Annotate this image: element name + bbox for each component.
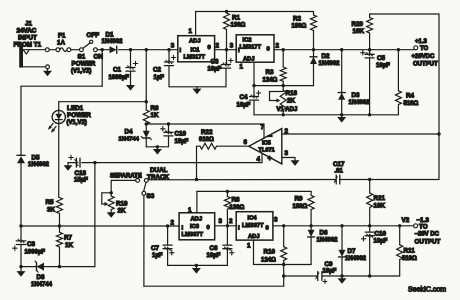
plus: [323, 280, 327, 284]
wire C7-C6 ground bus: [168, 264, 228, 266]
wire: [44, 266, 95, 268]
svg-text:D4: D4: [125, 128, 134, 135]
plus: [133, 61, 137, 65]
svg-text:R18: R18: [286, 90, 298, 97]
svg-text:0: 0: [207, 225, 210, 231]
node: [340, 274, 343, 277]
svg-text:TO: TO: [420, 46, 429, 52]
plus: [361, 237, 365, 241]
wire ref riser: [94, 163, 96, 267]
resistor R2 180ohm: [311, 12, 317, 50]
capacitor C4 10uF: [250, 86, 259, 115]
svg-text:C8: C8: [27, 241, 36, 248]
node: [167, 48, 170, 51]
svg-text:4: 4: [257, 156, 261, 163]
label pin7: [261, 124, 265, 131]
wire: [119, 49, 178, 51]
label S3: [147, 193, 155, 200]
plus: [161, 127, 165, 131]
terminal +output: [414, 46, 418, 50]
wire: [111, 180, 136, 192]
plus: [256, 91, 260, 95]
node: [93, 161, 96, 164]
wire ref neg bus: [95, 162, 262, 164]
svg-text:0: 0: [266, 226, 269, 232]
svg-text:3: 3: [219, 218, 223, 225]
plus: [361, 51, 365, 55]
label C2: [153, 67, 164, 81]
connector J1 24VAC input: [19, 45, 29, 68]
svg-text:TL071: TL071: [259, 147, 275, 153]
node: [195, 178, 198, 181]
svg-text:ADJ: ADJ: [248, 234, 260, 240]
node: [110, 191, 113, 194]
node: [437, 132, 440, 135]
svg-text:1µF: 1µF: [154, 75, 165, 81]
node: [58, 265, 61, 268]
svg-text:R5: R5: [46, 199, 55, 206]
svg-text:124Ω: 124Ω: [261, 257, 276, 263]
svg-text:IC4: IC4: [248, 215, 258, 221]
labels IC3: [171, 207, 223, 238]
label D2: [319, 53, 341, 67]
capacitor C1 1000uF: [126, 50, 135, 84]
svg-text:1N4744: 1N4744: [31, 282, 53, 288]
label R6: [151, 105, 160, 119]
plus: [229, 58, 233, 62]
regulator IC3 LM337T: [179, 213, 215, 240]
diode D4 1N4744 zener: [141, 124, 151, 147]
svg-text:OUTPUT: OUTPUT: [413, 62, 438, 68]
wire left rail: [20, 163, 22, 240]
svg-text:ADJ: ADJ: [191, 216, 203, 222]
ground: [291, 158, 300, 166]
svg-text:1N4744: 1N4744: [119, 136, 140, 142]
label C8: [25, 241, 46, 255]
resistor R4 510ohm: [395, 50, 401, 115]
svg-text:(V1,V2): (V1,V2): [67, 120, 87, 126]
svg-text:1N4002: 1N4002: [345, 256, 367, 262]
label C17: [333, 161, 345, 175]
capacitor C7 1uF: [163, 226, 172, 265]
svg-text:C1: C1: [113, 67, 122, 74]
svg-text:1N4002: 1N4002: [28, 162, 50, 168]
wire ADJ riser IC3: [196, 191, 198, 212]
resistor R3 124ohm: [280, 50, 286, 86]
svg-text:1: 1: [247, 242, 251, 249]
svg-text:910Ω: 910Ω: [199, 137, 214, 143]
svg-text:1N4002: 1N4002: [349, 100, 371, 106]
svg-text:−20V DC: −20V DC: [415, 232, 440, 238]
label C7: [151, 245, 163, 259]
svg-text:0: 0: [208, 45, 211, 51]
resistor R11 510ohm: [397, 226, 403, 276]
svg-text:2: 2: [276, 43, 280, 50]
capacitor C9 10uF: [316, 272, 322, 281]
svg-text:LM317T: LM317T: [184, 55, 206, 61]
node: [368, 178, 371, 181]
switch S3: [142, 183, 146, 196]
svg-text:R11: R11: [404, 248, 416, 255]
svg-text:1: 1: [189, 28, 193, 35]
svg-text:IC2: IC2: [243, 38, 252, 44]
svg-text:I: I: [180, 48, 182, 54]
capacitor C18 15uF: [68, 158, 95, 167]
node: [166, 224, 169, 227]
node: [156, 145, 159, 148]
wire IC2 out: [274, 49, 414, 51]
node: [312, 48, 315, 51]
wire IC1 out: [215, 49, 237, 51]
svg-text:6: 6: [244, 139, 248, 146]
svg-text:SeekIC.com: SeekIC.com: [408, 287, 446, 294]
label C3: [208, 59, 222, 73]
node: [226, 190, 229, 193]
LED LED1 POWER: [48, 102, 65, 133]
svg-text:180Ω: 180Ω: [293, 204, 308, 210]
switch S1 (open, OFF position): [80, 40, 93, 51]
wire: [58, 123, 60, 197]
label R11: [402, 248, 417, 263]
label D1: [102, 32, 124, 46]
node: [145, 48, 148, 51]
wire feedback: [148, 179, 336, 181]
svg-text:C17: C17: [333, 161, 345, 168]
wire sense: [284, 275, 318, 277]
svg-text:S1: S1: [78, 54, 86, 61]
svg-text:+1.3: +1.3: [415, 39, 428, 45]
wire jack sleeve: [23, 66, 46, 68]
svg-text:1A: 1A: [57, 40, 66, 47]
ground: [193, 87, 202, 94]
diode D7 1N4002: [339, 226, 346, 276]
svg-text:180Ω: 180Ω: [292, 24, 307, 30]
wire pin4: [261, 153, 263, 162]
label R4: [404, 93, 419, 107]
terminal -output: [414, 224, 418, 228]
svg-text:3: 3: [274, 216, 278, 223]
regulator IC2 LM317T: [236, 35, 274, 62]
node: [397, 48, 400, 51]
svg-text:3: 3: [285, 150, 289, 157]
node: [252, 84, 255, 87]
svg-text:1: 1: [188, 207, 192, 214]
node: [145, 100, 148, 103]
label R3: [263, 69, 278, 83]
wire pin2: [282, 133, 439, 135]
node: [282, 224, 285, 227]
node: [340, 113, 343, 116]
plus: [230, 251, 234, 255]
labels IC4: [229, 215, 278, 249]
ground: [192, 265, 201, 273]
wire: [283, 265, 285, 277]
diode D1 1N4002: [110, 46, 117, 53]
wire C2-C3 ground bus: [169, 86, 226, 88]
resistor R9 180ohm: [308, 191, 314, 225]
wire ADJ riser IC1: [195, 12, 197, 36]
regulator IC1 LM317T: [178, 36, 215, 62]
resistor R6 1K: [143, 50, 149, 124]
svg-text:FROM T1: FROM T1: [14, 42, 42, 49]
svg-text:D8: D8: [37, 274, 46, 281]
svg-text:2K: 2K: [118, 208, 127, 215]
svg-text:C7: C7: [151, 245, 160, 252]
svg-text:2: 2: [216, 43, 220, 50]
svg-text:2K: 2K: [287, 98, 296, 105]
svg-text:V1 ADJ: V1 ADJ: [277, 107, 298, 113]
svg-text:I: I: [182, 226, 184, 232]
svg-text:C2: C2: [153, 67, 162, 74]
svg-text:TO: TO: [419, 224, 428, 231]
svg-text:1000µF: 1000µF: [109, 75, 130, 81]
svg-text:D1: D1: [106, 32, 115, 39]
svg-text:DUAL: DUAL: [150, 167, 168, 174]
svg-text:LM337T: LM337T: [242, 223, 264, 229]
label D8: [31, 274, 53, 288]
svg-text:10µF: 10µF: [208, 67, 222, 73]
wire IC4 out: [273, 225, 414, 227]
svg-text:130Ω: 130Ω: [230, 205, 245, 211]
svg-text:D6: D6: [320, 230, 329, 237]
wire adj node: [254, 85, 314, 87]
label R9: [293, 196, 308, 210]
svg-text:1N4002: 1N4002: [317, 238, 339, 244]
svg-text:POWER: POWER: [67, 112, 91, 119]
svg-text:2: 2: [285, 128, 289, 135]
svg-text:C19: C19: [175, 131, 187, 138]
svg-text:OFF: OFF: [87, 32, 100, 39]
terminal separate: [136, 179, 140, 183]
terminal: [46, 65, 50, 69]
label pin2: [285, 128, 289, 135]
label R19: [116, 201, 128, 215]
node: [225, 48, 228, 51]
ground: [337, 115, 346, 123]
svg-text:10µF: 10µF: [207, 253, 221, 259]
regulator IC4 LM337T: [236, 212, 273, 240]
label C9: [323, 261, 337, 275]
label C1: [109, 67, 130, 81]
svg-text:R21: R21: [374, 195, 386, 202]
label D3: [349, 92, 371, 106]
svg-text:POWER: POWER: [72, 61, 96, 68]
labels IC1: [171, 28, 220, 61]
svg-text:3: 3: [230, 43, 234, 50]
node: [282, 113, 285, 116]
svg-text:R8: R8: [232, 197, 241, 204]
svg-text:0: 0: [267, 46, 270, 52]
svg-text:510Ω: 510Ω: [402, 256, 417, 262]
svg-text:R4: R4: [406, 93, 415, 100]
wire: [71, 49, 80, 51]
svg-text:130Ω: 130Ω: [231, 23, 246, 29]
svg-text:1µF: 1µF: [152, 253, 163, 259]
label C6: [207, 245, 221, 259]
node: [368, 113, 371, 116]
resistor R22 910ohm: [197, 143, 249, 179]
svg-text:10µF: 10µF: [323, 269, 337, 275]
node: [19, 224, 22, 227]
capacitor C10 10uF: [365, 226, 374, 276]
wire top right: [370, 13, 439, 15]
svg-text:C6: C6: [210, 245, 219, 252]
capacitor C2 1uF: [165, 50, 174, 87]
node: [101, 48, 104, 51]
ground: [126, 84, 135, 91]
svg-text:15µF: 15µF: [74, 178, 88, 184]
label pin4: [257, 156, 261, 163]
node: [368, 224, 371, 227]
svg-text:R19: R19: [116, 201, 128, 208]
diode D8 1N4744 zener: [35, 261, 44, 272]
svg-text:D7: D7: [348, 248, 357, 255]
capacitor C3 10uF: [222, 50, 231, 87]
svg-text:D3: D3: [352, 92, 361, 99]
potentiometer R19 2K: [102, 193, 114, 210]
node: [19, 265, 22, 268]
svg-text:10K: 10K: [374, 202, 386, 209]
svg-text:R1: R1: [232, 15, 241, 22]
svg-text:D2: D2: [322, 53, 331, 60]
label +output: [412, 39, 439, 68]
svg-text:R22: R22: [201, 129, 213, 136]
label LED1: [67, 105, 92, 126]
ground: [153, 147, 162, 155]
svg-text:1K: 1K: [65, 242, 74, 249]
svg-text:ADJ: ADJ: [243, 56, 255, 62]
svg-text:1: 1: [240, 64, 244, 71]
wire LED branch: [59, 101, 147, 103]
node: [145, 122, 148, 125]
fuse F1 1A: [56, 48, 71, 52]
svg-text:C3: C3: [211, 59, 220, 66]
diode D3 1N4002: [338, 50, 345, 115]
node: [195, 264, 198, 267]
diode D5 1N4002: [17, 155, 25, 163]
label R5: [46, 199, 56, 213]
op-amp IC5 TL071: [249, 129, 282, 164]
svg-text:R7: R7: [64, 235, 73, 242]
label SEPARATE: [110, 174, 142, 180]
label R10: [261, 249, 276, 264]
svg-text:C18: C18: [75, 170, 87, 177]
label C4: [237, 94, 251, 108]
svg-text:INPUT: INPUT: [18, 35, 37, 42]
svg-text:J1: J1: [25, 21, 33, 28]
node: [282, 274, 285, 277]
wire: [146, 146, 168, 148]
svg-text:R20: R20: [352, 21, 364, 28]
node: [309, 224, 312, 227]
svg-text:F1: F1: [58, 33, 66, 40]
plus: [13, 246, 17, 250]
label D6: [317, 230, 339, 244]
label R7: [64, 235, 74, 249]
resistor R7 1K: [57, 226, 63, 267]
svg-text:24VAC: 24VAC: [17, 28, 37, 35]
resistor R8 130ohm: [224, 191, 230, 225]
label R18: [277, 90, 298, 113]
label OFF / S1 / ON / POWER: [71, 32, 103, 75]
label J1: [14, 21, 42, 49]
capacitor C8 1000uF: [16, 239, 26, 266]
svg-text:S3: S3: [147, 193, 155, 200]
capacitor C6 10uF: [223, 226, 232, 266]
wire: [23, 49, 46, 51]
svg-text:V2: V2: [402, 217, 410, 224]
node: [225, 10, 228, 13]
node: [340, 224, 343, 227]
svg-text:124Ω: 124Ω: [263, 77, 278, 83]
label R20: [352, 21, 365, 35]
wire S3 common: [143, 195, 145, 286]
wire IC2 adj pin: [253, 62, 255, 85]
svg-text:R3: R3: [266, 69, 275, 76]
label pin6: [244, 139, 248, 146]
svg-text:3K: 3K: [47, 206, 56, 213]
node: [282, 84, 285, 87]
svg-text:1000µF: 1000µF: [25, 249, 46, 255]
ground: [64, 163, 73, 171]
svg-text:10K: 10K: [353, 28, 365, 35]
svg-text:1K: 1K: [151, 112, 160, 119]
terminal: [94, 48, 98, 52]
svg-text:OUTPUT: OUTPUT: [415, 238, 441, 245]
label F1 1A: [57, 33, 66, 47]
wire ground bus: [254, 114, 398, 116]
capacitor C5 10uF: [365, 50, 374, 115]
resistor R10 124ohm: [281, 226, 287, 265]
svg-text:C5: C5: [377, 55, 386, 62]
wire ref bus: [146, 123, 264, 125]
ground: [107, 210, 116, 218]
svg-text:+: +: [268, 154, 273, 163]
label D5: [28, 154, 50, 168]
svg-text:LED1: LED1: [67, 105, 84, 112]
wire bottom rail: [144, 276, 284, 286]
potentiometer R18 2K V1 ADJ: [270, 86, 287, 115]
capacitor C17 .01: [334, 175, 340, 184]
node: [368, 274, 371, 277]
resistor R5 3K: [57, 198, 63, 227]
node: [58, 224, 61, 227]
svg-text:7: 7: [261, 124, 265, 131]
label R1: [231, 15, 246, 29]
label C18: [74, 170, 88, 184]
label R22: [199, 129, 214, 143]
svg-text:+20VDC: +20VDC: [412, 54, 436, 60]
resistor R1 130ohm: [224, 13, 230, 50]
node: [282, 48, 285, 51]
plus: [170, 251, 174, 255]
wire: [49, 49, 56, 51]
svg-text:1N4002: 1N4002: [102, 39, 124, 45]
svg-text:15µF: 15µF: [175, 139, 189, 145]
node: [226, 224, 229, 227]
node: [129, 48, 132, 51]
node: [167, 122, 170, 125]
svg-text:10µF: 10µF: [374, 239, 388, 245]
label D4: [119, 128, 140, 142]
label pin3: [285, 150, 289, 157]
svg-text:10µF: 10µF: [237, 102, 251, 108]
node: [282, 263, 285, 266]
ground: [17, 267, 26, 277]
node: [368, 48, 371, 51]
node: [398, 224, 401, 227]
terminal dual track: [144, 179, 148, 183]
